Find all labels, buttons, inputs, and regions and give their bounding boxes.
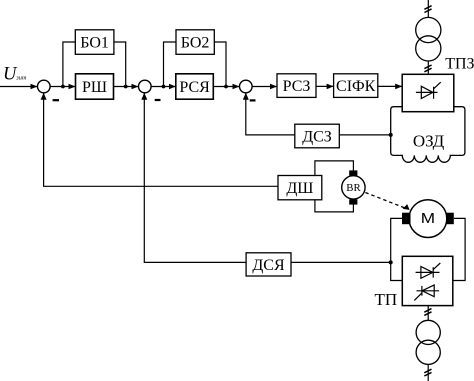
node dot before РШ: [61, 85, 65, 89]
arrowhead of coupling: [403, 204, 410, 210]
block БО2: [176, 30, 214, 55]
wire ДШ to BR upper: [315, 161, 354, 176]
wire ДСЗ to ОЗД node: [339, 134, 390, 136]
summing junction 3: [240, 80, 253, 93]
wire БО1 right branch: [114, 42, 126, 87]
wire bottom feeder: [427, 364, 429, 381]
minus sign of summer 3: [250, 99, 256, 101]
svg-text:М: М: [421, 211, 435, 226]
thyristor symbol forward inside ТП: [416, 263, 441, 278]
wire input to summer 1: [0, 86, 37, 88]
wire ДШ to BR lower: [315, 200, 354, 212]
wire РСЗ to СІФК: [316, 85, 333, 87]
wire БО2 left branch: [164, 42, 177, 87]
node dot on armature wire: [389, 260, 393, 264]
svg-text:ТПЗ: ТПЗ: [445, 55, 474, 72]
wire РШ to summer 2: [114, 86, 139, 88]
BR bottom brush: [349, 199, 357, 204]
wire ДСЗ feedback to summer 3: [246, 93, 295, 135]
svg-text:СІФК: СІФК: [336, 78, 376, 95]
label ОЗД: [413, 131, 445, 150]
svg-text:ТП: ТП: [375, 290, 398, 309]
block ДШ: [278, 176, 322, 200]
wire РСЯ to summer 3: [213, 86, 239, 88]
node dot on ОЗД left wire: [389, 133, 393, 137]
thyristor converter box ТП: [402, 256, 453, 305]
wire motor left to ТП: [391, 218, 403, 280]
thyristor symbol inside ТПЗ: [416, 82, 441, 99]
block РШ: [76, 74, 114, 99]
wire БО1 left branch: [63, 42, 75, 87]
svg-text:БО2: БО2: [181, 34, 210, 51]
minus sign of summer 1: [53, 99, 59, 101]
block БО1: [75, 30, 114, 55]
wire summer 3 to РСЗ: [252, 86, 277, 88]
svg-text:BR: BR: [346, 182, 361, 194]
motor left brush: [402, 213, 411, 225]
motor right brush: [446, 213, 454, 225]
svg-text:БО1: БО1: [80, 34, 109, 51]
transformer (bottom): [416, 320, 440, 344]
svg-text:РШ: РШ: [82, 79, 107, 96]
dashed mechanical coupling BR to motor: [365, 193, 407, 209]
summing junction 2: [139, 80, 152, 93]
wire transformer to ТПЗ: [427, 61, 429, 74]
wire motor right to ТП: [453, 218, 465, 280]
wire ДШ feedback to summer 1: [44, 93, 278, 186]
break symbol on bottom feeder: [424, 369, 431, 376]
block ДСЯ: [246, 253, 291, 276]
svg-text:ДСЯ: ДСЯ: [252, 257, 285, 274]
minus sign of summer 2: [155, 99, 161, 101]
wire supply feeder above transformer: [427, 0, 429, 17]
BR top brush: [349, 170, 357, 175]
wire ДСЯ feedback to summer 2: [144, 93, 246, 262]
wire СІФК to ТПЗ converter: [378, 85, 402, 87]
block РСЗ: [277, 74, 316, 98]
label ТП: [375, 290, 398, 309]
break symbol between ТП and transformer: [424, 309, 431, 316]
svg-text:ДСЗ: ДСЗ: [302, 128, 332, 145]
label ТПЗ: [445, 55, 474, 72]
node input label U_зит: [3, 65, 27, 85]
svg-text:РСЯ: РСЯ: [179, 79, 210, 96]
block ДСЗ: [295, 124, 340, 148]
block СІФК: [334, 74, 378, 98]
wire ТП to bottom transformer: [427, 306, 429, 321]
svg-text:ДШ: ДШ: [286, 180, 313, 197]
summing junction 1: [38, 80, 51, 93]
node dot after РСЯ: [224, 85, 228, 89]
wire summer 1 to РШ: [50, 86, 75, 88]
block РСЯ: [176, 74, 214, 99]
motor М: [409, 200, 447, 238]
field winding ОЗД outline: [391, 107, 465, 163]
wire ДСЯ to armature node: [291, 261, 391, 263]
thyristor converter box ТПЗ: [402, 74, 454, 111]
svg-text:зит: зит: [15, 74, 27, 81]
svg-text:ОЗД: ОЗД: [413, 131, 445, 150]
break symbol between transformer and ТПЗ: [424, 65, 431, 72]
break symbol on top feeder: [424, 6, 431, 13]
label BR: [346, 182, 361, 194]
wire summer 2 to РСЯ: [151, 86, 175, 88]
transformer (top): [416, 17, 441, 42]
node dot after РШ: [124, 85, 128, 89]
svg-text:РСЗ: РСЗ: [283, 78, 311, 95]
wire БО2 right branch: [214, 42, 226, 87]
tachogenerator BR: [342, 176, 365, 199]
thyristor symbol reverse inside ТП: [414, 285, 439, 300]
node dot after summer 2: [162, 85, 166, 89]
